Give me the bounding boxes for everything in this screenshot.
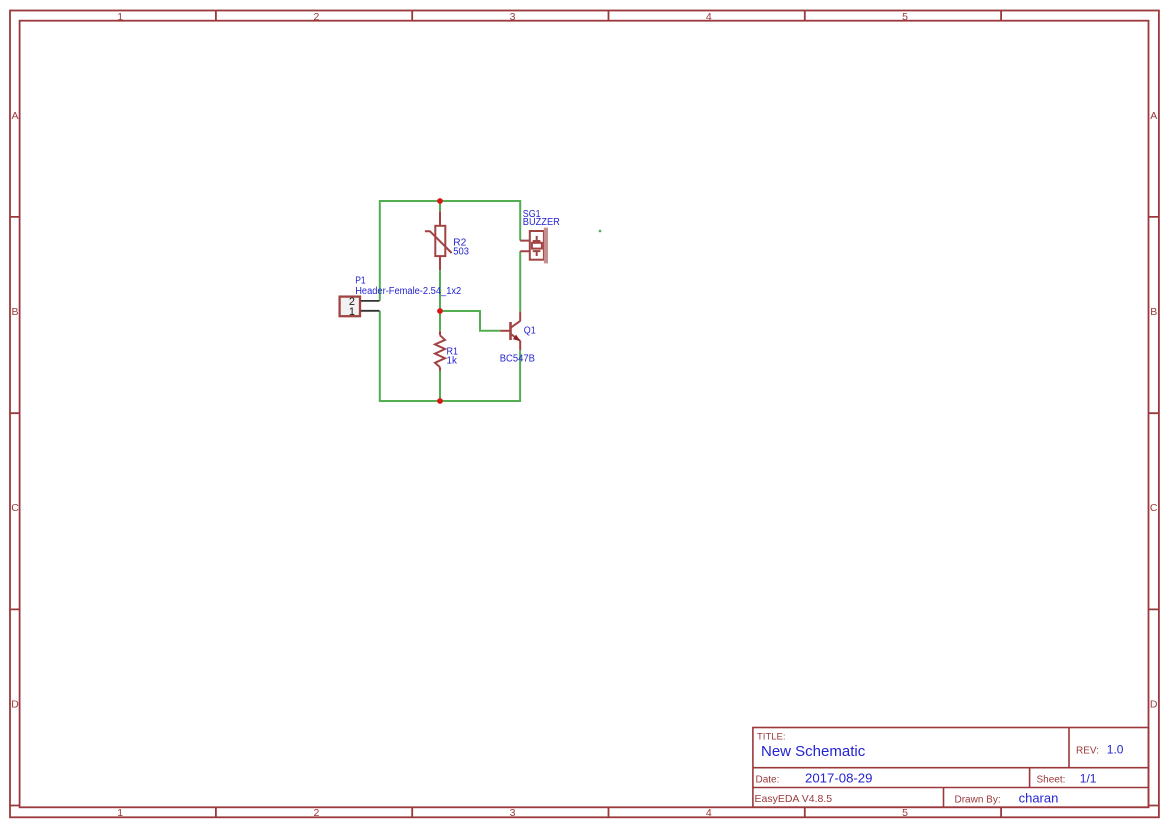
wire base branch [440, 311, 500, 331]
svg-text:1: 1 [349, 306, 355, 318]
svg-text:C: C [11, 502, 19, 514]
svg-text:BUZZER: BUZZER [523, 217, 560, 228]
svg-text:2: 2 [313, 807, 319, 819]
wire left lower vertical and bottom rail left [380, 311, 440, 401]
label 503 [453, 246, 469, 257]
svg-text:BC547B: BC547B [500, 354, 536, 365]
wire top junction to R2 [439, 201, 441, 211]
svg-text:1: 1 [117, 11, 123, 23]
wire R1 to bottom junction [439, 371, 441, 401]
wire stub (stray dot) [599, 230, 601, 232]
label P1 [355, 276, 366, 287]
svg-text:charan: charan [1019, 791, 1059, 806]
label BC547B [500, 354, 536, 365]
wire buzzer bottom to collector [519, 251, 521, 311]
pin number 1 [349, 306, 355, 318]
svg-text:3: 3 [510, 11, 516, 23]
svg-text:EasyEDA V4.8.5: EasyEDA V4.8.5 [755, 793, 833, 805]
svg-text:A: A [11, 110, 18, 122]
junction dot top [437, 198, 443, 204]
label SG1 [523, 209, 541, 220]
junction dot middle [437, 308, 443, 314]
label R2 [453, 237, 466, 248]
transistor Q1 [500, 312, 520, 351]
connector P1 [340, 297, 380, 317]
svg-text:1/1: 1/1 [1080, 771, 1097, 785]
wire middle junction to R1 [439, 311, 441, 331]
svg-text:TITLE:: TITLE: [757, 732, 786, 743]
label BUZZER [523, 217, 560, 228]
svg-text:C: C [1150, 502, 1158, 514]
svg-text:1: 1 [117, 807, 123, 819]
svg-text:Date:: Date: [756, 775, 780, 786]
svg-text:1.0: 1.0 [1107, 743, 1124, 757]
wire R2 to middle junction [439, 270, 441, 311]
svg-text:5: 5 [902, 11, 908, 23]
label Q1 [524, 326, 536, 337]
svg-text:Q1: Q1 [524, 326, 536, 337]
thermistor R2 [425, 211, 452, 270]
wire top rail and upper verticals [380, 201, 520, 301]
label 1k [447, 355, 458, 366]
svg-text:2017-08-29: 2017-08-29 [805, 771, 872, 786]
svg-text:New Schematic: New Schematic [761, 743, 866, 760]
svg-text:5: 5 [902, 807, 908, 819]
svg-text:Sheet:: Sheet: [1037, 775, 1066, 786]
svg-text:D: D [1150, 698, 1158, 710]
svg-text:Drawn By:: Drawn By: [955, 795, 1001, 806]
wire bottom rail right and emitter riser [440, 350, 520, 401]
svg-text:B: B [1150, 306, 1157, 318]
label R1 [447, 346, 459, 357]
svg-text:4: 4 [706, 11, 712, 23]
pin number 2 [349, 296, 355, 308]
svg-text:B: B [11, 306, 18, 318]
svg-text:503: 503 [453, 246, 469, 257]
svg-text:REV:: REV: [1076, 746, 1099, 757]
resistor R1 [435, 331, 445, 371]
svg-text:1k: 1k [447, 355, 458, 366]
junction dot bottom [437, 398, 443, 404]
svg-text:D: D [11, 698, 19, 710]
svg-text:3: 3 [510, 807, 516, 819]
svg-text:A: A [1150, 110, 1157, 122]
svg-text:4: 4 [706, 807, 712, 819]
label Header-Female-2.54_1x2 [355, 286, 461, 297]
buzzer SG1 [520, 228, 548, 264]
svg-text:2: 2 [313, 11, 319, 23]
svg-text:Header-Female-2.54_1x2: Header-Female-2.54_1x2 [355, 286, 461, 297]
